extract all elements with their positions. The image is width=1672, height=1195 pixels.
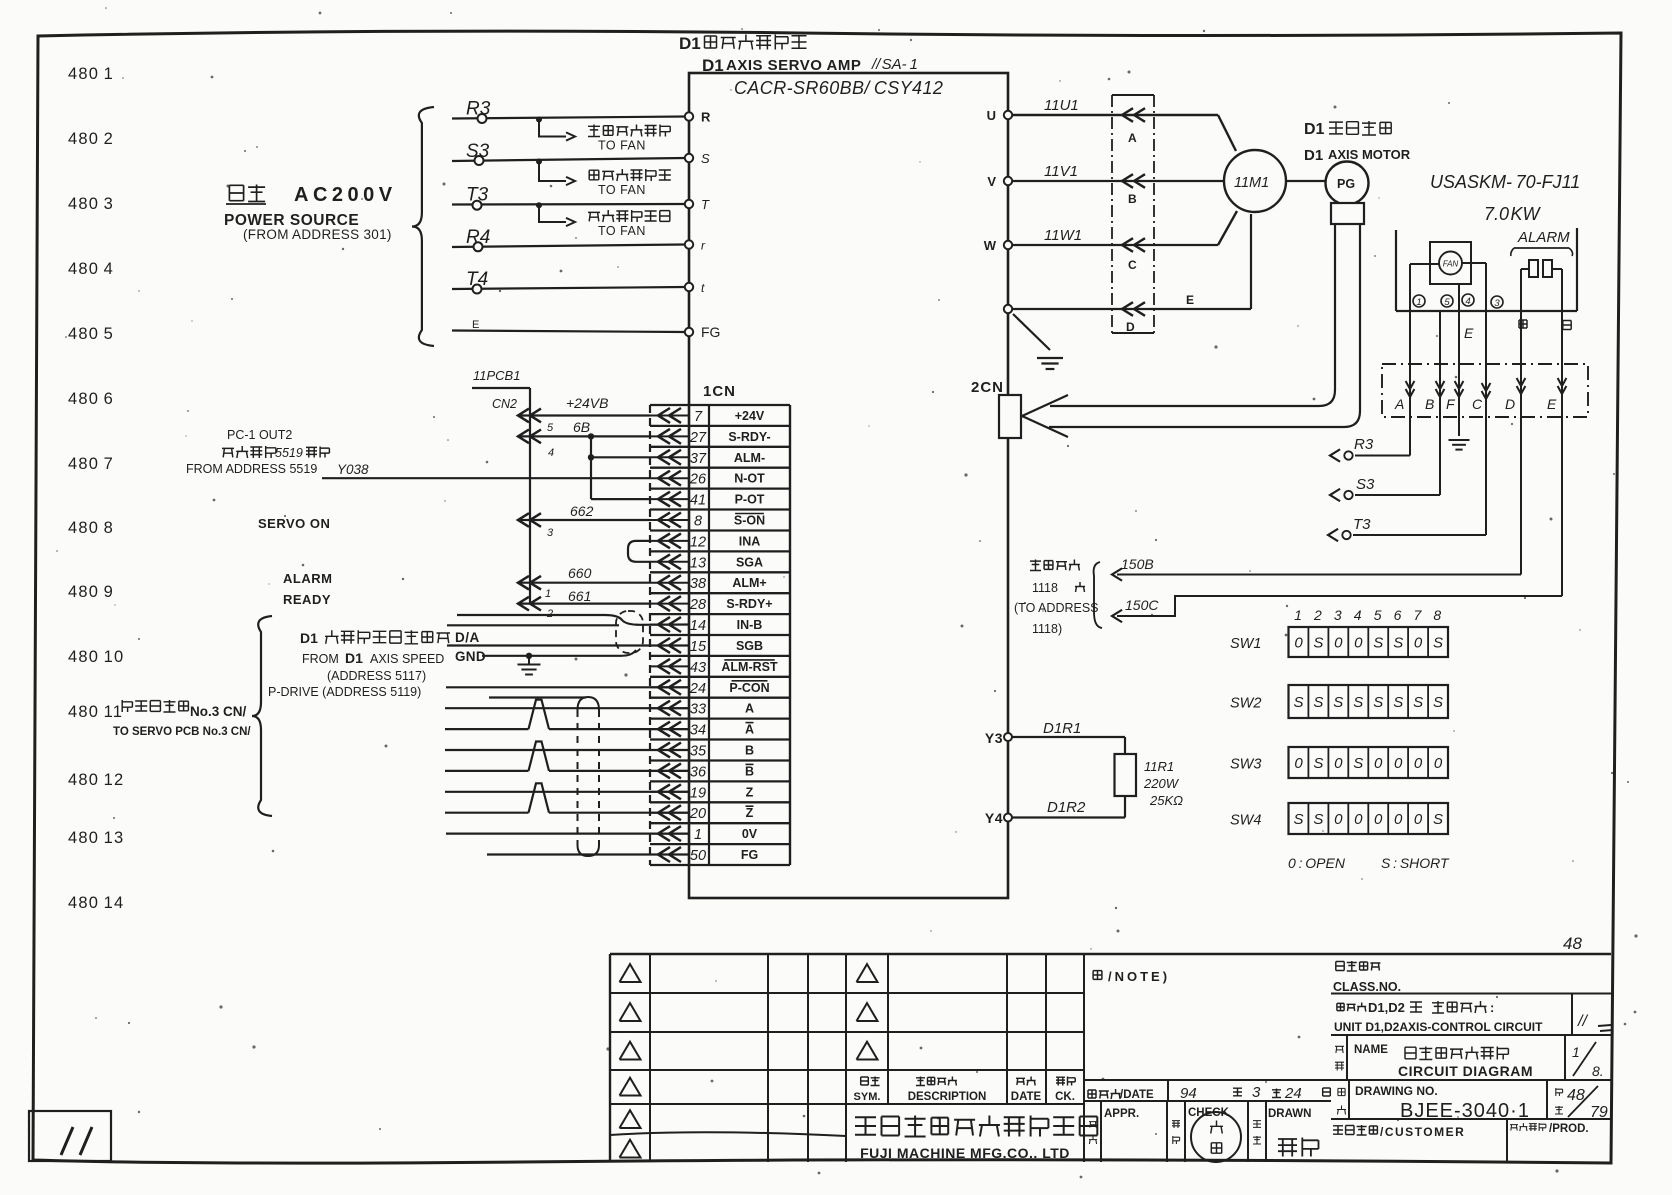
terminal W on servo amp right [1004, 241, 1012, 249]
svg-text:FROM ADDRESS 5519: FROM ADDRESS 5519 [186, 462, 317, 476]
svg-text:USASKM- 70-FJ11: USASKM- 70-FJ11 [1430, 172, 1580, 192]
label TO FAN (Japanese) 3 [588, 210, 670, 222]
svg-text:Y4: Y4 [985, 810, 1003, 826]
svg-text:D1,D2: D1,D2 [1368, 1000, 1405, 1015]
1CN pin 27 S-RDY- row [650, 435, 689, 437]
1CN pin 12 INA row [650, 540, 689, 542]
svg-text:+24V: +24V [735, 409, 765, 423]
svg-text:Z: Z [746, 785, 754, 799]
svg-text:DRAWING NO.: DRAWING NO. [1355, 1084, 1438, 1098]
label white wire (Japanese) [1563, 321, 1571, 330]
svg-text:T4: T4 [466, 269, 488, 290]
wire R4 to servo amp [452, 245, 685, 248]
svg-text:S: S [1313, 755, 1323, 772]
svg-text:A: A [1394, 396, 1404, 412]
twisted pair symbol [529, 700, 550, 729]
svg-text:35: 35 [690, 744, 707, 760]
dip switch SW3 [1289, 747, 1449, 778]
svg-text:150B: 150B [1121, 556, 1154, 572]
svg-text:7.0 KW: 7.0 KW [1484, 204, 1542, 224]
terminal 4 circled [1462, 294, 1474, 306]
svg-text:2: 2 [1313, 607, 1322, 623]
svg-text:// SA- 1: // SA- 1 [871, 56, 918, 73]
terminal circle on wire T3 [473, 201, 482, 210]
connector CN2 of 11PCB1 [472, 387, 530, 389]
svg-text:ALM-RST: ALM-RST [721, 660, 778, 674]
svg-text:FG: FG [741, 848, 758, 862]
brace power source group [412, 107, 434, 346]
label TO FAN (Japanese) 1 [588, 125, 670, 137]
svg-text:R: R [701, 110, 711, 125]
wire Y3 D1R1 [1012, 736, 1125, 738]
svg-text:24: 24 [1284, 1085, 1302, 1102]
svg-text:38: 38 [690, 576, 706, 592]
svg-text:R3: R3 [466, 99, 491, 120]
svg-text:26: 26 [689, 472, 707, 488]
wire W phase 11W1 [1012, 244, 1218, 246]
svg-text:ALARM: ALARM [283, 571, 332, 586]
motor terminal strip [1395, 230, 1397, 311]
svg-text:/PROD.: /PROD. [1549, 1123, 1589, 1135]
twisted pair symbol [529, 783, 550, 812]
svg-text:D: D [1505, 396, 1515, 412]
svg-text:READY: READY [283, 592, 331, 607]
wire 1CN pin50 FG shield [487, 853, 689, 855]
connector 2CN box [999, 395, 1021, 438]
terminal R on servo amp [685, 112, 693, 120]
svg-text:E: E [1186, 293, 1194, 307]
wire SGB to 1CN pin15 [447, 644, 689, 646]
wire P-CON to 1CN pin24 [446, 686, 689, 688]
svg-text:1CN: 1CN [703, 383, 736, 400]
header CK [1056, 1077, 1075, 1086]
svg-text:B: B [1425, 396, 1434, 412]
svg-text:R4: R4 [466, 227, 490, 248]
svg-text:V: V [987, 174, 996, 189]
svg-text:13: 13 [690, 555, 706, 571]
wire 1CN pin19 [445, 791, 689, 793]
wire Y038 to 1CN pin26 [322, 477, 650, 479]
revision table left [610, 992, 846, 994]
servo amplifier unit box [689, 73, 1008, 898]
svg-text:0V: 0V [742, 827, 758, 841]
svg-text:27: 27 [689, 430, 707, 446]
svg-text:SGB: SGB [736, 639, 763, 653]
svg-text:25KΩ: 25KΩ [1149, 793, 1183, 808]
terminal S on servo amp [685, 154, 693, 162]
svg-text:11U1: 11U1 [1044, 97, 1079, 114]
svg-text:C: C [1128, 258, 1137, 272]
twisted pair symbol [529, 742, 550, 771]
svg-text:B: B [1128, 192, 1137, 206]
svg-text:0: 0 [1394, 811, 1403, 828]
title block frame [610, 953, 1611, 955]
svg-text:S-RDY-: S-RDY- [728, 430, 770, 444]
svg-text:0: 0 [1414, 755, 1423, 772]
wire U phase 11U1 [1012, 114, 1218, 116]
wire T3 from fan [1353, 534, 1486, 536]
wire fan terminal 3 down to C [1462, 262, 1486, 264]
svg-text:PG: PG [1337, 177, 1355, 191]
svg-text:33: 33 [690, 702, 706, 718]
1CN pin 33 A row [650, 707, 689, 709]
svg-text:AXIS SPEED: AXIS SPEED [370, 652, 444, 666]
name cell [1346, 1035, 1348, 1080]
header DATE [1016, 1077, 1036, 1086]
wire 660 CN2 pin1 to 1CN pin38 [518, 582, 650, 584]
svg-text:P-DRIVE (ADDRESS 5119): P-DRIVE (ADDRESS 5119) [268, 685, 421, 699]
svg-text:11PCB1: 11PCB1 [473, 368, 520, 383]
svg-text:CK.: CK. [1055, 1091, 1075, 1103]
wire 661 CN2 pin2 to 1CN pin28 [518, 602, 650, 604]
svg-text:SW3: SW3 [1230, 757, 1261, 773]
wire fan branch 2 [539, 161, 566, 182]
customer cell [1333, 1125, 1377, 1135]
arrow into 2CN [1022, 395, 1068, 416]
svg-text:3: 3 [1494, 298, 1500, 309]
svg-text:11V1: 11V1 [1044, 163, 1078, 180]
1CN pin 34 A row [650, 728, 689, 730]
encoder PG circle [1326, 162, 1369, 205]
fan circle [1439, 252, 1462, 275]
wire alarm left down to D [1520, 269, 1522, 575]
svg-text:T3: T3 [1353, 516, 1371, 533]
svg-text:D1: D1 [679, 34, 701, 53]
terminal circle on wire T4 [473, 285, 482, 294]
terminal 5 circled [1441, 295, 1453, 307]
wire fan terminal 1 down to A [1410, 263, 1439, 265]
svg-text:CIRCUIT DIAGRAM: CIRCUIT DIAGRAM [1398, 1063, 1533, 1079]
svg-text:480 12: 480 12 [68, 771, 124, 789]
svg-text:ALM+: ALM+ [732, 576, 766, 590]
svg-text:UNIT D1,D2AXIS-CONTROL CIRCUIT: UNIT D1,D2AXIS-CONTROL CIRCUIT [1334, 1020, 1543, 1034]
svg-text:480 6: 480 6 [68, 390, 114, 408]
svg-text:S: S [1433, 811, 1443, 828]
sheet number box [29, 1111, 111, 1161]
svg-text:480 8: 480 8 [68, 519, 114, 537]
1CN pin 43 ALM-RST row [650, 665, 689, 667]
svg-text:SYM.: SYM. [854, 1091, 881, 1103]
terminal circle on wire R3 [478, 114, 487, 123]
terminal Y3 [1004, 733, 1012, 741]
svg-text:E: E [1547, 396, 1557, 412]
svg-text:1118): 1118) [1032, 622, 1062, 636]
svg-text:4: 4 [1465, 296, 1470, 307]
dashed cable shield capsule [578, 697, 600, 710]
svg-text:5: 5 [547, 422, 554, 434]
svg-text:0: 0 [1394, 755, 1403, 772]
svg-text:Y038: Y038 [337, 462, 369, 477]
svg-text:T: T [701, 197, 710, 212]
svg-text:94: 94 [1180, 1085, 1197, 1102]
svg-text:48: 48 [1563, 934, 1582, 953]
svg-text:/NOTE): /NOTE) [1108, 969, 1170, 984]
terminal circle on wire S3 [475, 156, 484, 165]
svg-text:0: 0 [1294, 755, 1303, 772]
svg-text:IN-B: IN-B [737, 618, 763, 632]
approval row [1100, 1101, 1102, 1162]
wire 150B [1117, 574, 1521, 576]
label address 1118 (Japanese) [1030, 560, 1080, 571]
ground symbol GND wire [528, 656, 530, 664]
label servo pcb No.3 CN (Japanese) [122, 700, 188, 712]
svg-text:TO FAN: TO FAN [598, 139, 646, 153]
revision triangles left column [620, 964, 641, 982]
alarm contact right [1543, 260, 1552, 277]
brace to address 1118 [1094, 562, 1102, 628]
cable connector dashed box [1382, 364, 1588, 417]
svg-text:CACR-SR60BB/ CSY412: CACR-SR60BB/ CSY412 [734, 78, 943, 98]
svg-text:24: 24 [689, 681, 706, 697]
1CN pin 37 ALM- row [650, 456, 689, 458]
svg-text:D1: D1 [345, 650, 363, 666]
svg-text:0: 0 [1374, 811, 1383, 828]
label date row [1088, 1089, 1121, 1099]
svg-text:(ADDRESS 5117): (ADDRESS 5117) [327, 669, 426, 683]
svg-text:DRAWN: DRAWN [1268, 1108, 1311, 1120]
wire branch to 1CN pin37 and pin41 [590, 436, 592, 499]
svg-text:7: 7 [1414, 607, 1423, 623]
junction dot GND [526, 653, 532, 659]
svg-text:1118: 1118 [1032, 581, 1058, 595]
wire GND [482, 655, 622, 657]
svg-text:FROM: FROM [302, 652, 339, 666]
junction dot fan branch 3 [536, 202, 542, 208]
fan unit box [1430, 242, 1471, 284]
svg-text:FUJI MACHINE MFG.CO.. LTD: FUJI MACHINE MFG.CO.. LTD [860, 1145, 1070, 1161]
svg-text:480 1: 480 1 [68, 65, 114, 83]
wire E motor ground [1012, 308, 1251, 310]
svg-text:7: 7 [694, 409, 703, 425]
svg-text:480 11: 480 11 [68, 703, 123, 721]
terminal Y4 [1004, 814, 1012, 822]
svg-text:ALM-: ALM- [734, 451, 765, 465]
svg-text:SW4: SW4 [1230, 813, 1261, 829]
wire 1CN pin33 [445, 707, 689, 709]
svg-text:S: S [1333, 694, 1343, 711]
svg-text:0: 0 [1354, 635, 1363, 652]
junction dot fan branch 1 [536, 117, 542, 123]
wire 1CN pin1 0V [446, 832, 689, 834]
svg-text:NAME: NAME [1354, 1044, 1388, 1056]
svg-text:/DATE: /DATE [1120, 1089, 1154, 1101]
svg-text:APPR.: APPR. [1104, 1108, 1139, 1120]
svg-text:12: 12 [690, 534, 706, 550]
svg-text:S-ON: S-ON [734, 514, 765, 528]
wire 6B CN2 pin5 to 1CN pin27 [518, 435, 650, 437]
motor 11M1 circle [1224, 150, 1286, 212]
svg-text:+24VB: +24VB [566, 395, 608, 411]
svg-text:34: 34 [690, 723, 706, 739]
wire fan E down to F and ground [1458, 284, 1460, 436]
header DESCRIPTION [916, 1077, 957, 1086]
1CN pin 28 S-RDY+ row [650, 603, 689, 605]
wire +24VB CN2 pin to 1CN pin7 [518, 414, 650, 416]
encoder PG connector box [1331, 203, 1364, 224]
svg-text:FAN: FAN [1443, 260, 1459, 269]
svg-text:1: 1 [694, 827, 702, 843]
svg-text:0: 0 [1434, 755, 1443, 772]
svg-text:480 7: 480 7 [68, 455, 114, 473]
1CN pin 35 B row [650, 749, 689, 751]
company name FUJI MACHINE (Japanese) [855, 1116, 1097, 1137]
svg-text:0: 0 [1294, 635, 1303, 652]
svg-text:661: 661 [568, 588, 591, 604]
svg-text:480 5: 480 5 [68, 325, 114, 343]
svg-text:S: S [1393, 694, 1403, 711]
svg-text:CN2: CN2 [492, 397, 517, 411]
wire 1CN pin34 [445, 728, 529, 730]
svg-text:5: 5 [1444, 297, 1450, 308]
svg-text:(FROM ADDRESS 301): (FROM ADDRESS 301) [243, 227, 392, 242]
svg-text:A: A [1128, 131, 1137, 145]
svg-text:S: S [1353, 755, 1363, 772]
1CN pin 36 B row [650, 770, 689, 772]
1CN pin 20 Z row [650, 812, 689, 814]
wire stub upper pair [447, 624, 619, 626]
svg-text:AXIS MOTOR: AXIS MOTOR [1328, 147, 1411, 162]
dip switch SW1 [1289, 627, 1449, 657]
svg-text:S3: S3 [1356, 476, 1375, 493]
svg-text:DATE: DATE [1011, 1091, 1042, 1103]
svg-text:8: 8 [694, 514, 702, 530]
svg-text:480 14: 480 14 [68, 894, 124, 912]
svg-text:TO FAN: TO FAN [598, 183, 646, 197]
svg-text:U: U [987, 108, 996, 123]
svg-text:S: S [1293, 694, 1303, 711]
revision triangles second column [857, 964, 878, 982]
svg-text:0: 0 [1414, 635, 1423, 652]
svg-text:Y3: Y3 [985, 730, 1003, 746]
svg-text:A: A [745, 723, 754, 737]
terminal U on servo amp right [1004, 111, 1012, 119]
1CN pin 19 Z row [650, 791, 689, 793]
svg-text:37: 37 [690, 451, 707, 467]
svg-text:0: 0 [1334, 811, 1343, 828]
svg-text:Z: Z [746, 806, 754, 820]
svg-text:S3: S3 [466, 141, 490, 162]
cell E/NOTE [1093, 971, 1102, 980]
svg-text:0: 0 [1414, 811, 1423, 828]
brace servo pcb group [252, 616, 272, 816]
svg-text:36: 36 [690, 764, 707, 780]
terminal t on servo amp [685, 283, 693, 291]
alarm contact left [1529, 260, 1538, 277]
svg-text:E: E [1464, 325, 1474, 341]
svg-text:S: S [1373, 694, 1383, 711]
wire fan terminal 5 down to B [1439, 311, 1441, 495]
svg-text:15: 15 [690, 639, 707, 655]
wire 1CN pin20 [445, 812, 529, 814]
svg-text:3: 3 [1252, 1084, 1261, 1101]
svg-text:TO FAN: TO FAN [598, 224, 646, 238]
drawing no cell [1338, 1088, 1345, 1095]
svg-text:19: 19 [690, 785, 706, 801]
wire alarm right down to E [1561, 269, 1563, 596]
svg-text:S: S [1393, 635, 1403, 652]
svg-text:S: S [1313, 635, 1323, 652]
wire shield drain [489, 696, 586, 698]
svg-text:PC-1 OUT2: PC-1 OUT2 [227, 428, 292, 442]
label address 5519 (Japanese) [222, 446, 276, 458]
1CN pin 1 0V row [650, 833, 689, 835]
1CN pin 50 FG row [650, 854, 689, 856]
svg-text:0: 0 [1354, 811, 1363, 828]
wire Y4 D1R2 [1012, 816, 1125, 818]
svg-text:(TO ADDRESS: (TO ADDRESS [1014, 601, 1099, 615]
svg-text:S: S [1413, 694, 1423, 711]
label black wire (Japanese) [1519, 320, 1527, 328]
sheet number 11 [61, 1127, 73, 1155]
svg-text:0: 0 [1334, 755, 1343, 772]
svg-text:2CN: 2CN [971, 379, 1004, 396]
svg-text:5519: 5519 [275, 446, 303, 460]
svg-text:INA: INA [739, 534, 761, 548]
svg-text:P-OT: P-OT [735, 493, 765, 507]
svg-text:D1R2: D1R2 [1047, 799, 1086, 816]
svg-text:S-RDY+: S-RDY+ [726, 597, 772, 611]
terminal 1 circled [1413, 295, 1425, 307]
svg-text:0 : OPEN: 0 : OPEN [1288, 855, 1346, 871]
svg-text:R3: R3 [1354, 436, 1374, 453]
svg-text:11R1: 11R1 [1144, 759, 1174, 774]
jumper 1CN pin12 to pin13 [628, 541, 650, 562]
terminal FG on servo amp [685, 328, 693, 336]
motor cable connector dash-dot strip [1112, 94, 1154, 96]
svg-text:480 4: 480 4 [68, 260, 114, 278]
terminal V on servo amp right [1004, 177, 1012, 185]
svg-text:S: S [1373, 635, 1383, 652]
wire T4 to servo amp [452, 287, 685, 289]
svg-text:SGA: SGA [736, 555, 763, 569]
svg-text:S: S [1313, 694, 1323, 711]
svg-text:662: 662 [570, 503, 594, 519]
wire 1CN pin35 [445, 749, 689, 751]
svg-text:4: 4 [548, 447, 554, 459]
svg-text:480 3: 480 3 [68, 195, 114, 213]
svg-text:0: 0 [1374, 755, 1383, 772]
svg-text:D1R1: D1R1 [1043, 720, 1081, 737]
svg-text:1: 1 [1294, 607, 1302, 623]
svg-text:D/A: D/A [455, 630, 480, 645]
svg-text:1: 1 [1416, 297, 1421, 308]
wire fan branch 1 [539, 119, 566, 137]
svg-text:SW1: SW1 [1230, 636, 1261, 652]
wire S3 from fan [1355, 494, 1440, 496]
dip switch SW2 [1289, 685, 1449, 718]
svg-text://: // [1577, 1013, 1588, 1030]
unit cell [1337, 1003, 1366, 1012]
svg-text:S : SHORT: S : SHORT [1381, 855, 1450, 871]
wire T3 to servo amp [452, 203, 685, 206]
svg-text:3: 3 [1334, 607, 1342, 623]
1CN pin 24 P-CON row [650, 686, 689, 688]
svg-text:28: 28 [689, 597, 706, 613]
svg-text:11M1: 11M1 [1234, 175, 1269, 191]
svg-text:480 2: 480 2 [68, 130, 114, 148]
revision table second [846, 992, 1084, 994]
1CN pin 15 SGB row [650, 645, 689, 647]
wire PG cable 2 to 2CN [1049, 224, 1360, 427]
svg-text:W: W [984, 238, 997, 253]
svg-text:E: E [472, 319, 479, 331]
svg-text:3: 3 [547, 527, 554, 539]
svg-text:6: 6 [1394, 607, 1402, 623]
1CN pin 13 SGA row [650, 561, 689, 563]
svg-text:11W1: 11W1 [1044, 227, 1082, 244]
svg-text:D1: D1 [1304, 121, 1325, 138]
dashed shield capsule D/A pair [616, 611, 643, 653]
